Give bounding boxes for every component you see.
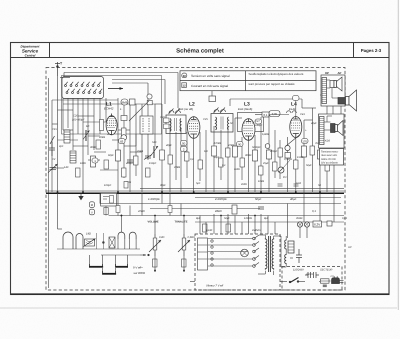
resistor R1 bbox=[91, 156, 96, 167]
ferrite coil left upper bbox=[64, 130, 70, 143]
wire bbox=[105, 206, 107, 216]
svg-text:Pages 2-3: Pages 2-3 bbox=[361, 48, 382, 53]
IFT1 tuning arrows bbox=[169, 109, 181, 115]
svg-text:1MΩ: 1MΩ bbox=[80, 162, 86, 165]
paper noise bbox=[0, 0, 1, 1]
svg-text:EL41: EL41 bbox=[289, 107, 296, 111]
svg-text:1-: 1- bbox=[120, 108, 122, 111]
IFT1 secondary coil bbox=[179, 119, 182, 132]
scattered value labels bbox=[52, 136, 336, 171]
filament winding 1 bbox=[285, 240, 287, 250]
antenna coil arrow bbox=[83, 130, 90, 141]
diagonal wire to detector bbox=[286, 135, 300, 147]
tube L3 bbox=[242, 119, 255, 141]
wire bbox=[180, 128, 182, 192]
svg-text:Schéma complet: Schéma complet bbox=[176, 48, 224, 55]
svg-text:Tension en volts sans signal: Tension en volts sans signal bbox=[191, 74, 230, 78]
wire bbox=[205, 130, 207, 192]
legend icon mA bbox=[182, 83, 187, 88]
jack circle bbox=[278, 167, 284, 173]
wire bbox=[186, 132, 188, 178]
svg-text:5pF: 5pF bbox=[196, 182, 201, 185]
svg-text:V: V bbox=[91, 211, 93, 214]
svg-text:Vibreur 7 V eff: Vibreur 7 V eff bbox=[206, 285, 223, 288]
measurement bubbles bbox=[89, 202, 94, 208]
ferrite coil left lower bbox=[70, 151, 76, 163]
resistor R6 bbox=[253, 150, 258, 161]
svg-text:HP: HP bbox=[325, 71, 329, 75]
svg-text:60pF: 60pF bbox=[108, 154, 114, 157]
resistor between rails a bbox=[116, 206, 120, 213]
wire bbox=[268, 115, 270, 193]
IFT2 tuning arrows bbox=[214, 108, 226, 114]
piano key 1 bbox=[89, 264, 103, 267]
speaker 2 bbox=[331, 121, 344, 136]
wire bbox=[129, 104, 131, 192]
header band separator bbox=[11, 57, 390, 59]
wire bbox=[254, 135, 256, 192]
wire bbox=[102, 233, 104, 249]
mains sub dashed box bbox=[282, 267, 342, 291]
svg-text:100-460pF: 100-460pF bbox=[72, 119, 85, 122]
svg-text:150pF: 150pF bbox=[149, 162, 157, 165]
power transformer primary bbox=[265, 238, 267, 270]
svg-text:14D: 14D bbox=[86, 233, 91, 236]
svg-text:KD5: KD5 bbox=[325, 140, 331, 143]
legend box bbox=[180, 71, 316, 91]
mixer bubble bbox=[121, 135, 127, 141]
wire bbox=[234, 118, 236, 192]
junction dots on distribution line bbox=[121, 215, 256, 217]
tube L1 bbox=[106, 114, 117, 135]
svg-text:C22: C22 bbox=[160, 116, 165, 119]
svg-text:0,05: 0,05 bbox=[272, 112, 278, 116]
svg-text:0,1: 0,1 bbox=[312, 209, 316, 213]
svg-text:22kΩ: 22kΩ bbox=[214, 209, 223, 213]
lamp box bbox=[313, 221, 322, 227]
speaker unit 2 box bbox=[319, 114, 345, 148]
wire bbox=[333, 150, 335, 192]
resistor R11 below bus bbox=[232, 205, 237, 214]
filter caps bbox=[296, 249, 302, 263]
wire bbox=[175, 132, 177, 180]
svg-text:EAF (6au6): EAF (6au6) bbox=[238, 107, 252, 111]
svg-text:25μF: 25μF bbox=[262, 162, 269, 165]
L4 grid coil icon bbox=[287, 111, 297, 113]
coupling tick bbox=[50, 136, 55, 144]
wire bbox=[213, 126, 215, 192]
svg-text:300Ω: 300Ω bbox=[245, 154, 251, 157]
svg-text:40μF: 40μF bbox=[290, 197, 297, 201]
IFT1 primary coil bbox=[169, 119, 172, 132]
voltage selector bbox=[198, 238, 208, 270]
volume pot circle bbox=[265, 144, 270, 149]
IFT2 box bbox=[211, 114, 233, 133]
mains caps bbox=[305, 272, 319, 278]
resistor R5 bbox=[233, 146, 238, 157]
IFT1 box bbox=[166, 115, 186, 134]
clavier wiring bbox=[57, 216, 140, 272]
svg-text:460pF: 460pF bbox=[126, 162, 134, 165]
svg-text:40μF: 40μF bbox=[311, 122, 317, 125]
svg-text:9 V eff=: 9 V eff= bbox=[133, 266, 143, 270]
svg-text:EAF (ou 42): EAF (ou 42) bbox=[178, 107, 193, 111]
wire bbox=[62, 98, 64, 130]
svg-text:sont prévues par rapport au ch: sont prévues par rapport au châssis bbox=[249, 82, 296, 86]
svg-text:PU: PU bbox=[283, 176, 287, 179]
resistor R2 bbox=[116, 150, 121, 161]
svg-text:350Ω: 350Ω bbox=[296, 217, 302, 220]
wire bbox=[117, 98, 119, 192]
labels bottom area bbox=[196, 217, 352, 249]
svg-text:Courant en mA sans signal: Courant en mA sans signal bbox=[191, 84, 228, 88]
tweeter speaker bbox=[330, 77, 342, 91]
power supply dashed box bbox=[195, 234, 280, 290]
svg-text:sur 800Ω: sur 800Ω bbox=[134, 271, 146, 275]
IFT3 box bbox=[238, 113, 264, 132]
mains switch contacts bbox=[253, 235, 259, 267]
left rail wire bbox=[48, 78, 50, 288]
wire bbox=[227, 126, 229, 192]
wire bbox=[123, 100, 125, 178]
wire bbox=[72, 98, 74, 150]
capacitor ticks b bbox=[294, 184, 299, 186]
wire bbox=[295, 101, 297, 117]
HT line bbox=[140, 187, 344, 189]
fuse bbox=[321, 279, 330, 287]
wire bbox=[295, 138, 297, 193]
junction dots on bus bbox=[57, 191, 321, 193]
svg-text:100pF: 100pF bbox=[104, 184, 112, 187]
resistor between rails b bbox=[168, 206, 172, 213]
svg-text:25kΩ: 25kΩ bbox=[136, 150, 143, 153]
svg-text:Central: Central bbox=[25, 53, 36, 57]
wire bbox=[67, 98, 69, 128]
svg-text:1MΩ: 1MΩ bbox=[159, 236, 164, 239]
svg-text:C2: C2 bbox=[52, 158, 56, 161]
chassis dashed outline bbox=[46, 68, 345, 291]
wire bbox=[51, 100, 53, 192]
secondary bus lines bbox=[100, 204, 344, 223]
coupling bubble bbox=[269, 111, 280, 117]
small box right bbox=[327, 221, 332, 226]
wire bbox=[324, 116, 332, 130]
wire bbox=[105, 98, 107, 113]
tube L4 bbox=[290, 117, 302, 138]
svg-text:470kΩ: 470kΩ bbox=[214, 142, 222, 145]
svg-text:C41: C41 bbox=[300, 113, 305, 116]
wire bbox=[279, 140, 281, 179]
svg-text:MF: MF bbox=[86, 125, 90, 128]
wire bbox=[87, 98, 89, 155]
diagonal wire to oscillator bbox=[129, 101, 149, 121]
trimmer cap left bbox=[48, 164, 58, 173]
wire horizontal links bbox=[52, 99, 118, 101]
cap pair left of L2 bbox=[164, 118, 170, 123]
wire mesh top-left (antenna / oscillator section) bbox=[52, 76, 155, 192]
wire bbox=[141, 104, 143, 192]
mesh jumpers left bbox=[52, 110, 142, 168]
wire bbox=[147, 104, 149, 160]
svg-text:20kΩ: 20kΩ bbox=[98, 136, 105, 139]
header right box bbox=[353, 43, 355, 58]
pilot lamp 2 bbox=[304, 222, 309, 227]
svg-text:60: 60 bbox=[183, 74, 187, 78]
wire bbox=[82, 98, 84, 192]
wire mesh center bbox=[155, 91, 334, 192]
wire bbox=[327, 80, 339, 98]
wire bbox=[319, 130, 321, 192]
top feed wires from switch going right bbox=[60, 73, 341, 131]
wires below bus left bbox=[100, 193, 275, 234]
svg-text:2-5000pF: 2-5000pF bbox=[214, 197, 227, 201]
wire bbox=[154, 104, 156, 146]
scan edge bottom bbox=[0, 307, 397, 309]
ground symbol bbox=[78, 193, 83, 200]
mixer grid cap bbox=[121, 116, 127, 121]
wire: top cap lead of L3 bbox=[211, 91, 213, 96]
bubble above L4 bbox=[293, 96, 300, 101]
capacitor ticks a bbox=[278, 184, 283, 186]
wire bbox=[241, 137, 243, 180]
svg-text:2MΩ: 2MΩ bbox=[240, 183, 247, 186]
power transformer core bbox=[269, 236, 271, 272]
extra labels fill bbox=[52, 108, 317, 148]
svg-text:1-5000pF: 1-5000pF bbox=[148, 197, 160, 201]
svg-text:50pF: 50pF bbox=[214, 156, 220, 159]
resistor above PSU b bbox=[226, 224, 231, 232]
svg-text:50: 50 bbox=[182, 141, 186, 145]
wire bbox=[260, 117, 262, 192]
resistor R9 bbox=[318, 150, 323, 159]
svg-text:22kΩ: 22kΩ bbox=[173, 166, 180, 169]
speaker unit 1 box bbox=[321, 75, 345, 106]
measurement bubbles near tubes bbox=[92, 119, 308, 163]
wire bbox=[135, 104, 137, 176]
clavier coil L large bbox=[63, 232, 83, 249]
oscillator coil box bbox=[140, 116, 153, 134]
svg-text:Souflensplatten électrolytique: Souflensplatten électrolytiques des vale… bbox=[249, 72, 304, 76]
wire bbox=[248, 140, 250, 192]
svg-text:6,3V: 6,3V bbox=[314, 223, 320, 227]
piano key 2 bbox=[115, 264, 128, 267]
output transformer 1 winding strip bbox=[322, 78, 327, 104]
wire bbox=[312, 108, 314, 192]
svg-text:AP: AP bbox=[338, 71, 342, 75]
svg-text:6,8: 6,8 bbox=[204, 150, 208, 153]
svg-text:0,1: 0,1 bbox=[264, 113, 268, 117]
wires bottom connecting bbox=[214, 192, 334, 238]
mixer grid resistor bbox=[122, 128, 127, 136]
svg-text:47kΩ: 47kΩ bbox=[228, 144, 234, 147]
svg-text:2x350V: 2x350V bbox=[251, 229, 261, 232]
top cap component box bbox=[209, 96, 216, 102]
wire bbox=[77, 98, 79, 134]
svg-text:90: 90 bbox=[238, 142, 242, 146]
svg-text:50pF: 50pF bbox=[255, 197, 262, 201]
mains plug bbox=[332, 276, 344, 283]
svg-text:150Ω: 150Ω bbox=[297, 156, 303, 159]
switch row 1 levers bbox=[66, 82, 101, 85]
svg-text:mètre 20 000: mètre 20 000 bbox=[321, 158, 336, 161]
key arrow bbox=[140, 254, 149, 256]
svg-text:C25: C25 bbox=[203, 118, 208, 121]
wire bbox=[327, 106, 333, 114]
wire bbox=[57, 76, 59, 192]
legend icon volts bbox=[182, 73, 187, 78]
horizontal wires bbox=[155, 103, 162, 105]
value label 6M8 bbox=[121, 99, 128, 105]
svg-text:1MΩ: 1MΩ bbox=[234, 168, 240, 171]
IFT2 primary coil bbox=[215, 117, 218, 130]
svg-text:SECTEUR: SECTEUR bbox=[320, 269, 333, 272]
wire bbox=[303, 120, 305, 192]
svg-text:40pF: 40pF bbox=[166, 144, 172, 147]
labels above bus bbox=[104, 180, 321, 187]
piano key 3 bbox=[102, 271, 116, 274]
adjustable coil bbox=[84, 239, 96, 247]
switch row 2 contacts bbox=[66, 92, 101, 94]
wire bbox=[96, 233, 98, 249]
AVC resistor below bbox=[104, 208, 108, 215]
wire bbox=[99, 98, 101, 134]
svg-text:0,1: 0,1 bbox=[222, 164, 226, 167]
selector contacts bbox=[211, 240, 213, 266]
power transformer HT secondary bbox=[272, 238, 274, 270]
detector diode circle bbox=[285, 145, 290, 150]
clavier coil small 1 bbox=[118, 232, 125, 239]
svg-text:240pF: 240pF bbox=[254, 124, 263, 127]
resistor under tone pot bbox=[182, 259, 187, 267]
filament winding 2 bbox=[285, 254, 287, 264]
resistor R10 bbox=[332, 150, 337, 159]
svg-text:C20: C20 bbox=[73, 115, 78, 118]
wire bbox=[93, 98, 95, 150]
svg-text:C27: C27 bbox=[255, 120, 260, 123]
tuner block outline bbox=[62, 76, 162, 135]
wire bbox=[274, 130, 276, 178]
svg-text:TONALITE: TONALITE bbox=[175, 221, 188, 224]
svg-text:530: 530 bbox=[152, 141, 157, 144]
tone pot bbox=[178, 234, 190, 256]
svg-text:0,5MΩ: 0,5MΩ bbox=[188, 236, 196, 239]
svg-text:2x0,01: 2x0,01 bbox=[305, 273, 314, 276]
svg-text:CV: CV bbox=[331, 275, 335, 278]
svg-text:30pF: 30pF bbox=[160, 184, 166, 187]
svg-text:6,8kΩ: 6,8kΩ bbox=[262, 133, 269, 136]
svg-text:10kΩ: 10kΩ bbox=[258, 180, 264, 183]
cap box under diode bbox=[285, 153, 291, 159]
svg-text:VOLUME: VOLUME bbox=[148, 221, 159, 224]
rectifier plate stack bbox=[288, 241, 294, 253]
resistor above PSU a bbox=[203, 224, 208, 232]
band switch unit bbox=[62, 77, 104, 99]
main ground bus upper bbox=[46, 190, 344, 192]
clavier coil small 2 bbox=[129, 232, 136, 239]
mains switch bbox=[289, 278, 299, 283]
header left box bbox=[49, 43, 51, 58]
svg-text:0,1: 0,1 bbox=[190, 158, 194, 161]
svg-text:Ω/V au châssis: Ω/V au châssis bbox=[321, 162, 338, 165]
wire bbox=[287, 137, 289, 192]
wire bbox=[326, 165, 328, 192]
transformer wires bbox=[208, 235, 293, 275]
switch row 1 contacts bbox=[65, 85, 100, 87]
coupling cap box bbox=[262, 112, 269, 117]
resistor under volume pot bbox=[153, 259, 158, 267]
selector drum bbox=[241, 249, 249, 257]
output transformer 2 winding strip bbox=[320, 117, 325, 145]
page frame bbox=[11, 43, 390, 295]
capacitor C2 left edge bbox=[49, 142, 55, 156]
svg-text:8μF: 8μF bbox=[196, 217, 201, 220]
resistor R8 bbox=[302, 146, 307, 157]
wire bbox=[220, 130, 222, 180]
wire bbox=[169, 128, 171, 192]
svg-text:140: 140 bbox=[64, 166, 69, 169]
svg-text:50μF: 50μF bbox=[306, 164, 312, 167]
AVC network box bbox=[101, 193, 117, 206]
svg-text:8μF: 8μF bbox=[264, 217, 269, 220]
junction dot bbox=[102, 241, 104, 243]
svg-text:2pF: 2pF bbox=[58, 145, 64, 148]
capacitor C12 below bus bbox=[258, 207, 264, 209]
svg-text:0,5MΩ: 0,5MΩ bbox=[284, 158, 292, 161]
svg-text:1200Ω: 1200Ω bbox=[244, 217, 252, 220]
svg-text:6M8: 6M8 bbox=[122, 101, 128, 105]
svg-text:170: 170 bbox=[302, 139, 307, 143]
svg-text:0,05: 0,05 bbox=[342, 217, 348, 220]
wire bbox=[199, 132, 201, 181]
svg-text:rées avec volt-: rées avec volt- bbox=[321, 154, 337, 157]
antenna T bbox=[55, 62, 60, 76]
svg-text:12: 12 bbox=[183, 84, 187, 88]
svg-text:HP: HP bbox=[348, 246, 352, 249]
svg-text:65: 65 bbox=[120, 139, 124, 143]
pot bottom dots bbox=[154, 270, 156, 272]
pilot lamp 1 bbox=[297, 222, 302, 227]
aux line under bus bbox=[195, 197, 341, 199]
svg-text:Tensions mesu-: Tensions mesu- bbox=[321, 150, 339, 153]
wire bbox=[193, 138, 195, 192]
small cap on wire bbox=[124, 182, 128, 189]
oscillator coil arrow bbox=[151, 146, 159, 158]
main loudspeaker bbox=[338, 90, 357, 111]
svg-text:110/245V: 110/245V bbox=[293, 269, 304, 272]
svg-text:300Ω: 300Ω bbox=[90, 146, 96, 149]
svg-text:5000pF: 5000pF bbox=[252, 146, 261, 149]
svg-text:EZ40: EZ40 bbox=[206, 229, 213, 232]
main ground bus bbox=[46, 192, 344, 194]
svg-text:0,02: 0,02 bbox=[296, 182, 302, 185]
svg-text:ECH42: ECH42 bbox=[104, 107, 114, 111]
resistor R7 bbox=[267, 150, 272, 159]
switch row 2 levers bbox=[67, 89, 102, 92]
svg-text:50μF: 50μF bbox=[224, 217, 230, 220]
trimmer block bbox=[109, 237, 115, 248]
note box right bbox=[320, 149, 344, 166]
mains wires bbox=[190, 280, 331, 283]
scan edge right bbox=[397, 0, 399, 310]
svg-text:200pF: 200pF bbox=[269, 150, 278, 153]
extra resistors middle band bbox=[76, 140, 330, 177]
oscillator bubble bbox=[147, 94, 152, 99]
IFT2 secondary coil bbox=[227, 117, 230, 130]
tuning arrow bbox=[108, 87, 123, 90]
wires down-left bbox=[58, 192, 185, 272]
volume pot bbox=[149, 234, 161, 256]
grid resistor left of L1 bbox=[100, 120, 104, 131]
